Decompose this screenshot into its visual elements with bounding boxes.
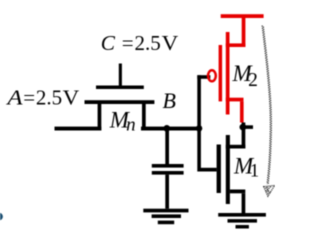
svg-text:B: B	[163, 88, 176, 113]
svg-text:Mn: Mn	[109, 107, 136, 135]
svg-text:C=2.5V: C=2.5V	[101, 31, 178, 55]
svg-text:M1: M1	[233, 154, 259, 182]
svg-text:A=2.5V: A=2.5V	[5, 86, 79, 110]
svg-text:M2: M2	[232, 61, 258, 91]
